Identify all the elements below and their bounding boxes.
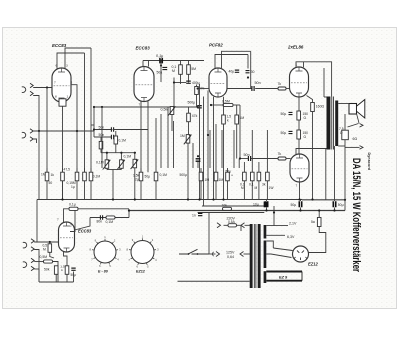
- wire heater drop V3: [203, 97, 205, 207]
- wire to V4 grid: [286, 88, 290, 90]
- stub row bottom x47: [46, 181, 48, 200]
- junction 0,1µ top: [160, 59, 162, 61]
- junction pot3: [134, 152, 136, 154]
- stub row top x47: [46, 168, 48, 172]
- svg-text:EZ12: EZ12: [308, 262, 319, 267]
- socket diagram EZ12: [126, 235, 159, 274]
- fuse: [228, 224, 237, 227]
- resistor row x141: [139, 172, 143, 181]
- wire r2 bot: [188, 74, 190, 82]
- wire V2 cathode down: [140, 101, 142, 172]
- svg-text:0,1M: 0,1M: [124, 155, 132, 159]
- wire x91 to x94: [91, 124, 94, 126]
- wire switch low: [345, 146, 360, 148]
- junction x94 a: [93, 128, 95, 130]
- resistor row x156: [154, 172, 158, 181]
- resistor 50k: [54, 266, 58, 275]
- heater winding box EZ9: [266, 272, 302, 281]
- svg-text:6,3V: 6,3V: [287, 235, 295, 239]
- stub row bottom x258.9: [258, 181, 260, 200]
- resistor 0,1M divider: [99, 141, 103, 149]
- wire fb to V6: [64, 209, 70, 222]
- wire lower coupling a: [240, 158, 248, 160]
- bus rail y199.5: [37, 199, 302, 201]
- wire jack2 line: [33, 130, 94, 132]
- wire EZ12 heater: [266, 241, 291, 258]
- capacitor 50n lower: [248, 156, 250, 161]
- wire x39 low: [38, 269, 40, 282]
- resistor row x252.3: [251, 172, 255, 181]
- mains switch: [179, 249, 209, 255]
- wire to bottom bus: [53, 262, 59, 283]
- wire comb x173.5: [173, 121, 175, 168]
- junction bus: [265, 209, 267, 211]
- capacitor k bypass lower: [289, 131, 293, 133]
- resistor 150R lower: [297, 130, 301, 139]
- wire anode drop a: [84, 53, 86, 172]
- wire tone2 top: [115, 131, 117, 136]
- wire 50n row b: [94, 136, 111, 138]
- wire V2 pin b up: [148, 61, 150, 67]
- wire 7,5R down: [344, 140, 346, 200]
- wire pot down: [171, 115, 173, 132]
- wire fb right: [78, 208, 129, 210]
- wire comb x52.5: [52, 167, 54, 169]
- resistor 5M: [187, 65, 191, 75]
- wire comb x193: [192, 143, 194, 168]
- input jack 1: [22, 83, 33, 95]
- junction bus: [318, 209, 320, 211]
- wire x199.5 long drop: [199, 84, 201, 200]
- tube V4 EL86 upper: [290, 67, 309, 97]
- capacitor 50n b: [111, 135, 113, 139]
- potentiometer bass: [103, 160, 111, 170]
- wire jack3b down: [34, 250, 39, 283]
- svg-text:40µ: 40µ: [229, 70, 235, 74]
- stub cap a top: [266, 200, 268, 202]
- capacitor 50µ cathode: [162, 67, 167, 69]
- wire 47k top stub: [196, 85, 198, 87]
- junction x197 y107: [197, 106, 199, 108]
- stub row bottom x141: [140, 181, 142, 200]
- resistor 0,5M horizontal: [44, 260, 53, 263]
- wire x94 drop: [93, 107, 95, 137]
- svg-text:6: 6: [56, 64, 58, 68]
- stub pot1 bot: [106, 168, 108, 169]
- svg-text:Dynacord: Dynacord: [367, 153, 371, 171]
- svg-text:10k: 10k: [222, 203, 228, 207]
- stub row top x267.4: [266, 168, 268, 172]
- resistor row x216: [214, 172, 218, 181]
- resistor 47k mid: [187, 113, 191, 122]
- wire OT sec return down: [334, 146, 336, 200]
- wire left rail down: [36, 200, 38, 243]
- svg-text:125V: 125V: [226, 250, 235, 254]
- stub row top x156: [155, 168, 157, 172]
- wire EZ12 heater b: [273, 248, 292, 251]
- svg-text:1M: 1M: [41, 173, 46, 177]
- output transformer: [327, 97, 339, 150]
- wire comb x267.4: [266, 130, 268, 168]
- svg-text:7: 7: [54, 81, 56, 85]
- stub row top x258.9: [258, 168, 260, 172]
- svg-text:50µ: 50µ: [338, 203, 344, 207]
- resistor 7k upper: [278, 87, 286, 90]
- svg-text:M: M: [255, 186, 258, 190]
- wire grid leak drop: [46, 88, 48, 173]
- svg-text:7k: 7k: [278, 82, 282, 86]
- wire loop drop outer: [250, 51, 252, 77]
- resistor row x267.4: [266, 172, 270, 181]
- wire V4 k to 160R: [307, 96, 313, 103]
- speaker: [349, 100, 365, 119]
- junction bus: [112, 198, 114, 200]
- svg-text:50n: 50n: [99, 125, 105, 129]
- stub cap a bot: [266, 208, 268, 211]
- junction 50µ top: [197, 155, 199, 157]
- resistor 0,5M: [223, 103, 233, 106]
- capacitor 50µ filter b: [299, 201, 301, 207]
- stub row bottom x216: [215, 181, 217, 200]
- svg-text:0,64: 0,64: [227, 255, 234, 259]
- resistor row x91: [89, 172, 93, 181]
- capacitor 80n: [100, 215, 102, 220]
- wire comb x239.2: [238, 159, 240, 169]
- stub cap c bot: [334, 208, 336, 211]
- wire lower coupling b: [251, 158, 278, 160]
- wire loop drop inner: [247, 55, 249, 69]
- svg-text:5a: 5a: [311, 220, 315, 224]
- stub row bottom x201: [200, 181, 202, 200]
- junction bus: [128, 209, 130, 211]
- stub row top x201: [200, 168, 202, 172]
- wire V3 k to bus: [223, 124, 225, 200]
- junction bus: [187, 198, 189, 200]
- wire jack4b: [34, 268, 39, 270]
- wire V4 screen stub: [303, 62, 305, 67]
- svg-text:0,1M: 0,1M: [93, 175, 101, 179]
- svg-text:6Ω: 6Ω: [353, 137, 358, 141]
- cathode resistor V1: [59, 99, 66, 106]
- wire to OT primary top: [324, 96, 327, 98]
- wire comb x216: [215, 124, 217, 168]
- wire V3 loop inner: [215, 55, 248, 69]
- svg-text:7: 7: [211, 93, 213, 97]
- junction bus: [344, 199, 346, 201]
- stub row bottom x267.4: [266, 181, 268, 200]
- junction grid V3: [197, 87, 199, 89]
- resistor 7k lower: [278, 157, 286, 160]
- junction bus: [333, 209, 335, 211]
- wire 0,5M right: [233, 104, 240, 106]
- resistor 5a: [317, 218, 321, 227]
- wire 400µ row: [174, 82, 186, 84]
- resistor row x227.5: [226, 172, 230, 181]
- wire comb x258.9: [258, 162, 260, 168]
- resistor 0,1M fb: [106, 216, 115, 219]
- wire jack1b down: [33, 96, 39, 132]
- svg-text:E - 80: E - 80: [98, 270, 109, 274]
- input jack 4: [23, 258, 34, 270]
- junction 0,5M left: [210, 104, 212, 106]
- svg-text:7: 7: [139, 103, 141, 107]
- wire comb x156: [155, 118, 157, 168]
- wire B+ line stage2: [143, 60, 204, 62]
- svg-text:ECC83: ECC83: [52, 43, 67, 48]
- junction y107: [101, 106, 103, 108]
- bus y199.8 right: [302, 199, 345, 201]
- svg-text:7: 7: [296, 184, 298, 188]
- junction bus: [134, 198, 136, 200]
- wire heater CT up: [273, 206, 275, 226]
- wire V6 cathode: [64, 252, 68, 266]
- svg-text:M: M: [241, 186, 244, 190]
- tube V5 EL86 lower: [290, 154, 309, 182]
- wire comb x168: [167, 107, 169, 168]
- secondary winding bars: [264, 225, 267, 283]
- wire comb x234: [233, 130, 235, 168]
- wire V5 bottom to bus: [299, 182, 301, 200]
- wire coupling down: [160, 61, 162, 83]
- stub pot top: [171, 106, 173, 109]
- resistor 160R: [311, 103, 315, 112]
- svg-text:1M: 1M: [180, 134, 185, 138]
- wire bus y107: [94, 106, 198, 108]
- resistor row x77: [75, 172, 79, 181]
- resistor row x84.5: [83, 172, 87, 181]
- capacitor 0,1µ coupling: [160, 58, 162, 64]
- svg-text:47,5: 47,5: [64, 168, 71, 172]
- svg-text:1: 1: [296, 63, 298, 67]
- capacitor k bypass upper: [289, 112, 293, 114]
- wire 0,5M bot: [50, 252, 54, 258]
- svg-text:EZ12: EZ12: [136, 270, 146, 274]
- wire V4 anode to OT top: [296, 62, 332, 97]
- svg-text:1M: 1M: [219, 178, 224, 182]
- resistor row x62.5: [61, 172, 65, 181]
- wire comb x244.4: [243, 162, 245, 168]
- junction lower coupling: [239, 157, 241, 159]
- wire pentode to 50n: [250, 78, 252, 89]
- wire OT sec low: [338, 145, 345, 147]
- stub row top x141: [140, 168, 142, 172]
- junction bus: [298, 198, 300, 200]
- wire B+ riser x324 top: [323, 68, 325, 97]
- capacitor 50µ electrolytic mid: [196, 159, 201, 161]
- wire 50µ down: [197, 162, 199, 169]
- capacitor 40µ: [235, 70, 239, 72]
- wire speaker return: [344, 114, 346, 130]
- stub cap b bot: [300, 208, 302, 211]
- svg-text:500µ: 500µ: [180, 173, 188, 177]
- svg-text:3: 3: [66, 64, 68, 68]
- svg-text:2: 2: [70, 224, 72, 228]
- junction bus: [299, 209, 301, 211]
- wire 50k down: [55, 274, 57, 282]
- junction pot2 top: [120, 152, 122, 154]
- stub row bottom x91: [90, 181, 92, 200]
- wire comb x252.3: [251, 130, 253, 168]
- wire V3 anode out: [227, 88, 252, 90]
- terminal arrows 125V: [216, 252, 220, 257]
- svg-text:5M: 5M: [191, 67, 196, 71]
- wire V1 cathode to bus: [62, 106, 64, 199]
- heater rail y212.5: [198, 212, 265, 214]
- junction bus: [222, 198, 224, 200]
- stub row top x62.5: [62, 168, 64, 172]
- potentiometer 0,5M volume: [168, 106, 176, 116]
- wire jack4a: [34, 261, 43, 263]
- wire OT to speaker: [338, 103, 349, 105]
- junction pot1: [106, 152, 108, 154]
- svg-text:ECC83: ECC83: [78, 229, 92, 234]
- svg-text:2µ: 2µ: [135, 178, 139, 182]
- svg-text:7k: 7k: [278, 152, 282, 156]
- wire phase drop x240: [239, 105, 241, 159]
- svg-text:1k: 1k: [51, 173, 55, 177]
- terminal arrows 220V: [217, 223, 245, 228]
- svg-text:7: 7: [57, 218, 59, 222]
- wire V5 anode to OT: [296, 149, 327, 155]
- svg-text:+: +: [231, 174, 233, 178]
- wire V3 loop outer: [222, 51, 251, 68]
- wire heater taps: [266, 226, 288, 236]
- resistor 0,5M V6: [48, 244, 52, 253]
- output tap switch: [348, 114, 364, 150]
- wire pot bottoms: [107, 169, 122, 171]
- svg-text:0,1µ: 0,1µ: [69, 203, 76, 207]
- wire jack2b stub: [33, 139, 36, 143]
- stub pot2 bot: [120, 168, 122, 169]
- stub row bottom x244.4: [243, 181, 245, 200]
- resistor 0,1M plate load: [179, 65, 183, 75]
- potentiometer mid: [117, 160, 125, 170]
- wire x209 to switch: [208, 213, 210, 255]
- wire 0,5M left: [211, 104, 223, 106]
- bus rail y210.5: [129, 210, 345, 212]
- wire jack1 to V1 grid: [33, 87, 52, 89]
- wire V1 pin2 down: [71, 85, 77, 173]
- wire comb x102: [101, 107, 103, 168]
- capacitor 50n a: [111, 127, 113, 131]
- svg-text:30: 30: [251, 70, 255, 74]
- input jack 2: [22, 129, 33, 141]
- resistor 1M V3: [235, 115, 239, 124]
- junction bus: [212, 198, 214, 200]
- svg-text:10µ: 10µ: [253, 202, 259, 206]
- wire cathode chain: [298, 97, 300, 154]
- wire to V5 grid: [286, 158, 291, 160]
- wire V1 anode b: [65, 48, 91, 69]
- resistor 7,5R: [342, 130, 349, 140]
- capacitor 30: [246, 71, 250, 73]
- wire jack3 to V6 grid: [34, 241, 58, 243]
- svg-text:160Ω: 160Ω: [316, 105, 325, 109]
- wire r1 bot: [180, 74, 182, 84]
- wire y217.5: [90, 217, 129, 219]
- resistor row x201: [199, 172, 203, 181]
- svg-text:80n: 80n: [97, 220, 103, 224]
- stub cap b top: [300, 200, 302, 202]
- wire 1M tone down: [187, 143, 189, 200]
- stub row top x216: [215, 168, 217, 172]
- svg-text:1M: 1M: [205, 178, 210, 182]
- junction bus: [273, 211, 275, 213]
- junction x174: [173, 81, 175, 83]
- stub row bottom x77: [76, 181, 78, 200]
- wire V3 pin down: [213, 97, 215, 200]
- wire 1M top: [236, 105, 238, 115]
- junction V3 right: [247, 76, 249, 78]
- terminal hook 125V: [213, 252, 214, 256]
- svg-text:1n: 1n: [192, 214, 196, 218]
- tube V6 ECC83: [59, 222, 75, 252]
- svg-text:2: 2: [71, 81, 73, 85]
- wire x39 long drop: [38, 131, 40, 200]
- wire pot3 top: [134, 153, 136, 160]
- wire 50n row a: [94, 129, 111, 131]
- resistor 0,1M tone2: [114, 136, 118, 144]
- tube V1 ECC83: [52, 68, 71, 102]
- svg-text:PCF82: PCF82: [209, 43, 223, 48]
- input jack 3: [23, 239, 34, 251]
- stub row bottom x84.5: [84, 181, 86, 200]
- resistor 47k: [195, 87, 199, 95]
- stub row top x84.5: [84, 168, 86, 172]
- capacitor 400µ: [186, 81, 191, 83]
- svg-text:3k: 3k: [262, 183, 266, 187]
- junction bus: [61, 198, 63, 200]
- svg-text:50µ: 50µ: [281, 112, 287, 116]
- wire comb x210: [209, 130, 211, 168]
- svg-text:50µ: 50µ: [157, 71, 163, 75]
- svg-text:0,1µ: 0,1µ: [156, 54, 163, 58]
- potentiometer 1M tone: [184, 135, 192, 145]
- wire V3 k down: [223, 97, 225, 115]
- resistor 150R upper: [297, 111, 301, 120]
- svg-text:50n: 50n: [255, 81, 261, 85]
- wire y217.5 left end to V6: [75, 218, 91, 231]
- wire right end: [344, 200, 346, 211]
- svg-text:0,1M: 0,1M: [106, 220, 114, 224]
- tube V7 EZ12: [293, 246, 309, 262]
- svg-text:1µ: 1µ: [71, 185, 75, 189]
- wire pot bus y152.7: [101, 152, 136, 154]
- svg-text:50k: 50k: [44, 268, 50, 272]
- wire 125V to trafo: [244, 253, 253, 255]
- wire 47k mid bot: [188, 122, 190, 135]
- resistor 1,5k V3: [222, 115, 226, 124]
- wire 220V to trafo: [237, 225, 253, 231]
- wire 1,5k down: [66, 274, 68, 282]
- wire x174 drop: [173, 78, 175, 108]
- wire pot3 to bus: [134, 168, 136, 200]
- wire pots to bus: [112, 170, 114, 200]
- wire 50n a to x148: [113, 129, 149, 131]
- terminal arrow 125V right: [240, 252, 244, 257]
- socket diagram E - 80: [89, 235, 121, 274]
- bus bottom left: [39, 281, 74, 283]
- wire 47k mid top: [188, 107, 190, 113]
- wire EZ12 anode path: [309, 227, 326, 253]
- stub row top x244.4: [243, 168, 245, 172]
- wire divider bot: [100, 149, 102, 153]
- capacitor 50µ V6: [71, 268, 75, 270]
- svg-text:400µ: 400µ: [192, 81, 200, 85]
- svg-text:ECC83: ECC83: [136, 46, 151, 51]
- potentiometer treble: [131, 159, 139, 169]
- wire V3 left down: [207, 91, 209, 200]
